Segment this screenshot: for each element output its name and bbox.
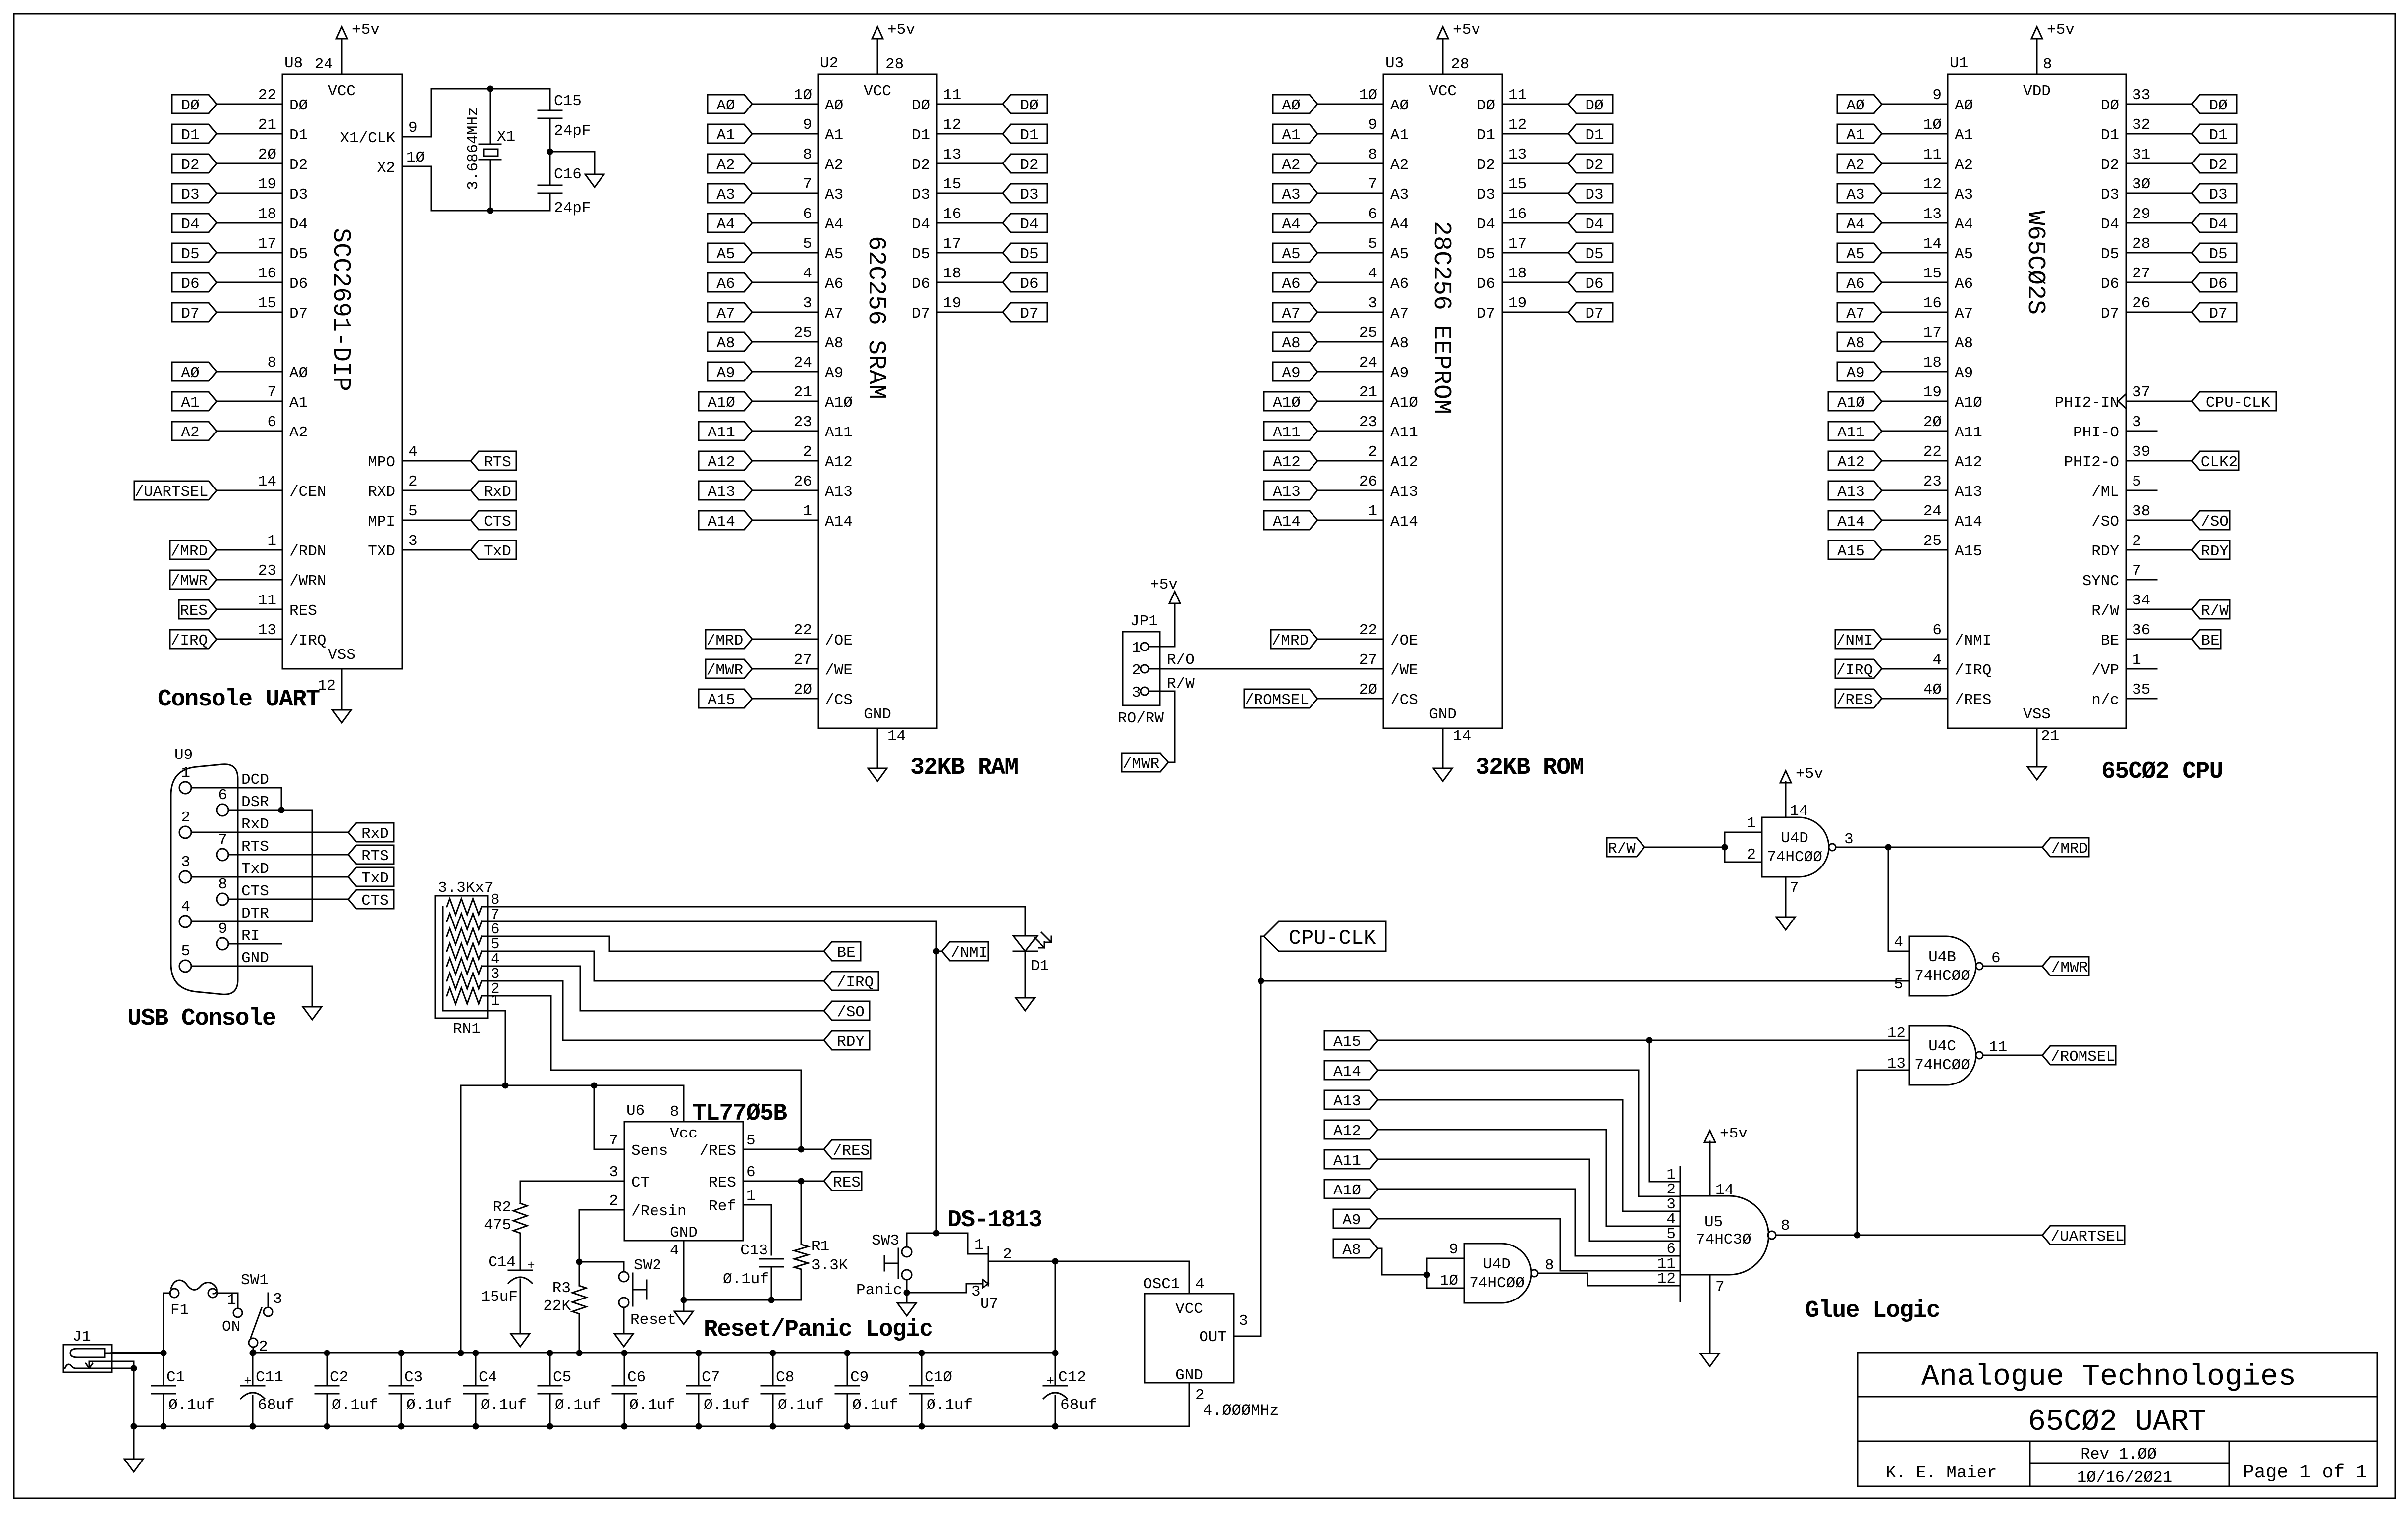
svg-text:DØ: DØ (181, 97, 199, 114)
U9 pin 8 CTS (217, 893, 228, 905)
svg-text:12: 12 (318, 677, 336, 695)
svg-text:/IRQ: /IRQ (171, 632, 208, 650)
svg-text:+: + (527, 1258, 535, 1273)
svg-text:C16: C16 (554, 166, 582, 183)
svg-text:/MWR: /MWR (2051, 959, 2088, 976)
IC U8 SCC2691-DIP body (282, 74, 402, 669)
svg-text:J1: J1 (72, 1328, 91, 1346)
svg-text:21: 21 (258, 116, 276, 134)
node C3 bottom rail (398, 1423, 405, 1430)
svg-text:CTS: CTS (241, 883, 269, 900)
svg-text:Ø.1uf: Ø.1uf (778, 1397, 824, 1414)
svg-text:5: 5 (803, 235, 812, 253)
svg-text:D1: D1 (2209, 127, 2227, 144)
svg-text:A12: A12 (1333, 1123, 1361, 1140)
svg-text:A1: A1 (825, 127, 843, 144)
svg-text:22: 22 (1923, 443, 1942, 461)
flag A13 glue (1324, 1090, 1378, 1109)
svg-text:/ROMSEL: /ROMSEL (1245, 692, 1309, 709)
svg-text:A4: A4 (825, 216, 843, 233)
svg-text:A12: A12 (825, 454, 853, 471)
svg-text:68uf: 68uf (258, 1397, 294, 1414)
svg-text:TxD: TxD (484, 543, 511, 560)
flag CPU-CLK mid (1264, 921, 1386, 951)
wire RN1 pin7 to /NMI net (488, 921, 936, 1233)
svg-text:D4: D4 (181, 216, 199, 233)
svg-text:36: 36 (2132, 622, 2150, 639)
wire R1 to GND net (801, 1269, 802, 1300)
svg-text:/IRQ: /IRQ (1955, 662, 1991, 679)
gate U4D 74HC00 top (1762, 817, 1829, 877)
svg-text:24: 24 (315, 56, 333, 73)
svg-text:/ML: /ML (2091, 484, 2119, 501)
svg-text:A7: A7 (1846, 305, 1864, 323)
svg-text:VSS: VSS (328, 647, 356, 664)
svg-text:R/W: R/W (2091, 602, 2119, 620)
fuse F1 (164, 1293, 170, 1353)
ground at SW2 (614, 1334, 633, 1347)
svg-text:C1: C1 (166, 1369, 185, 1386)
svg-text:A13: A13 (1837, 484, 1865, 501)
svg-text:Ø.1uf: Ø.1uf (332, 1397, 378, 1414)
svg-text:3: 3 (803, 295, 812, 312)
svg-text:D3: D3 (2101, 186, 2119, 204)
svg-text:2Ø: 2Ø (794, 681, 812, 699)
resistor R3 22K (579, 1262, 580, 1286)
resistor network RN1 body 3.3Kx7 (435, 896, 488, 1018)
wire CPU-CLK to U4B pin5 (1261, 980, 1909, 982)
svg-text:D3: D3 (181, 186, 199, 204)
svg-text:1Ø: 1Ø (406, 149, 425, 166)
node DSR/DCD junction (278, 807, 285, 813)
capacitor C4 0.1uf (475, 1353, 477, 1386)
wire U2 GND to ground (877, 728, 878, 768)
svg-text:U2: U2 (820, 55, 838, 72)
svg-text:U4D: U4D (1781, 830, 1808, 847)
svg-text:A2: A2 (716, 157, 735, 174)
connector U9 DB9 shell (171, 764, 238, 995)
svg-text:D7: D7 (1020, 305, 1038, 323)
node RES junction R1 tap (798, 1178, 805, 1185)
svg-text:A13: A13 (1333, 1093, 1361, 1110)
svg-text:12: 12 (1657, 1270, 1676, 1288)
svg-text:/CS: /CS (1390, 692, 1418, 709)
ground at SW3 (897, 1303, 916, 1316)
svg-text:3.6864MHz: 3.6864MHz (465, 107, 482, 190)
svg-text:24pF: 24pF (554, 200, 591, 217)
node C11 top rail (250, 1350, 256, 1356)
flag RDY glue (824, 1031, 870, 1050)
svg-text:1: 1 (2132, 651, 2141, 669)
svg-text:RDY: RDY (2201, 543, 2229, 560)
wire A12 to U5 pin4 (1378, 1130, 1680, 1226)
svg-text:U4C: U4C (1928, 1038, 1956, 1055)
svg-text:D5: D5 (912, 246, 930, 263)
svg-text:21: 21 (1359, 384, 1377, 401)
U9 pin 1 DCD (179, 782, 191, 794)
wire A11 to U5 pin5 (1378, 1159, 1680, 1241)
svg-text:RDY: RDY (2091, 543, 2119, 560)
svg-text:6: 6 (1368, 206, 1377, 223)
svg-text:8: 8 (670, 1103, 679, 1121)
svg-text:13: 13 (1923, 206, 1942, 223)
svg-text:A7: A7 (825, 305, 843, 323)
svg-text:AØ: AØ (1846, 97, 1864, 114)
svg-text:14: 14 (1923, 235, 1942, 253)
svg-text:DØ: DØ (2101, 97, 2119, 114)
svg-text:74HCØØ: 74HCØØ (1469, 1275, 1525, 1292)
svg-text:2Ø: 2Ø (1359, 681, 1377, 699)
svg-text:13: 13 (943, 146, 961, 163)
node crystal bottom junction (487, 208, 493, 214)
svg-text:C15: C15 (554, 93, 582, 110)
svg-text:A14: A14 (1955, 513, 1982, 531)
svg-text:Page 1 of 1: Page 1 of 1 (2243, 1462, 2367, 1483)
wire /Resin to SW2 (579, 1262, 624, 1272)
svg-text:A12: A12 (1837, 454, 1865, 471)
title block row divider 2 (1858, 1441, 2377, 1442)
svg-text:22: 22 (258, 87, 276, 104)
svg-text:8: 8 (2043, 56, 2052, 73)
node C6 bottom rail (621, 1423, 628, 1430)
svg-text:GND: GND (670, 1224, 698, 1242)
svg-text:7: 7 (267, 384, 276, 401)
svg-text:62C256 SRAM: 62C256 SRAM (862, 236, 890, 399)
node C4 top rail (473, 1350, 479, 1356)
power +5v at JP1 (1169, 592, 1180, 603)
svg-text:RTS: RTS (484, 454, 511, 471)
svg-text:3.3K: 3.3K (811, 1257, 848, 1274)
svg-text:A14: A14 (708, 513, 735, 531)
svg-text:BE: BE (837, 944, 855, 962)
svg-text:C1Ø: C1Ø (925, 1369, 952, 1386)
svg-text:D5: D5 (2209, 246, 2227, 263)
svg-text:4: 4 (1195, 1276, 1204, 1293)
node U6 GND corner (681, 1297, 687, 1303)
wire R2 to C14 (520, 1233, 521, 1270)
svg-text:RDY: RDY (837, 1033, 865, 1051)
svg-text:475: 475 (484, 1217, 511, 1234)
wire U6 GND net (684, 1241, 801, 1300)
svg-text:17: 17 (1508, 235, 1527, 253)
node CPU-CLK to U4B pin5 junction (1258, 978, 1264, 984)
svg-text:A12: A12 (1390, 454, 1418, 471)
svg-text:32: 32 (2132, 116, 2150, 134)
svg-text:3Ø: 3Ø (2132, 176, 2150, 193)
svg-text:15: 15 (1923, 265, 1942, 282)
svg-text:23: 23 (258, 562, 276, 580)
wire Sens riser (594, 1085, 624, 1149)
svg-text:A12: A12 (1273, 454, 1301, 471)
IC OSC1 body (1145, 1294, 1234, 1383)
wire J1 sleeve to ground (89, 1361, 134, 1459)
svg-text:D1: D1 (289, 127, 308, 144)
svg-text:D2: D2 (912, 157, 930, 174)
svg-text:VCC: VCC (864, 83, 891, 100)
svg-text:/RES: /RES (1955, 692, 1991, 709)
capacitor C13 0.1uf (760, 1258, 783, 1260)
svg-text:D6: D6 (181, 275, 199, 293)
svg-text:OUT: OUT (1199, 1329, 1227, 1346)
svg-text:15: 15 (258, 295, 276, 312)
flag /NMI (942, 942, 988, 961)
svg-text:A3: A3 (1282, 186, 1300, 204)
capacitor C8 0.1uf (772, 1353, 774, 1386)
flag BE (824, 942, 861, 961)
svg-text:A15: A15 (1333, 1033, 1361, 1051)
wire U4D out to U4B pin4 (1888, 847, 1909, 951)
wire ground rail (134, 1426, 1189, 1427)
node /MRD to U4B junction (1885, 844, 1892, 851)
svg-text:6: 6 (267, 414, 276, 431)
svg-text:25: 25 (794, 325, 812, 342)
svg-text:A14: A14 (825, 513, 853, 531)
U9 pin 2 RxD (179, 826, 191, 838)
svg-text:18: 18 (1508, 265, 1527, 282)
flag RES (824, 1172, 862, 1191)
svg-text:+5v: +5v (2047, 21, 2075, 39)
ground at U2 GND (868, 768, 887, 781)
crystal X1 (490, 89, 491, 144)
flag A8 glue (1333, 1239, 1378, 1258)
svg-text:A1: A1 (1955, 127, 1973, 144)
svg-text:D3: D3 (1585, 186, 1603, 204)
svg-text:15: 15 (1508, 176, 1527, 193)
wire net to SW3 and U7 pin1 (907, 1233, 988, 1254)
svg-text:A15: A15 (708, 692, 735, 709)
svg-text:3: 3 (971, 1283, 981, 1300)
svg-text:4: 4 (1932, 651, 1942, 669)
svg-text:BE: BE (2101, 632, 2119, 650)
svg-text:3: 3 (1844, 831, 1854, 848)
svg-text:VCC: VCC (1175, 1300, 1203, 1318)
svg-text:D7: D7 (2209, 305, 2227, 323)
svg-text:4: 4 (181, 898, 190, 916)
svg-text:27: 27 (2132, 265, 2150, 282)
svg-text:Rev 1.ØØ: Rev 1.ØØ (2080, 1445, 2157, 1463)
svg-text:14: 14 (1453, 728, 1471, 745)
node RN1 pin1 junction (502, 1083, 509, 1089)
svg-text:Reset/Panic Logic: Reset/Panic Logic (704, 1316, 932, 1343)
svg-text:1: 1 (1747, 815, 1756, 832)
node /Resin junction (576, 1259, 583, 1265)
svg-text:35: 35 (2132, 681, 2150, 699)
svg-text:SCC2691-DIP: SCC2691-DIP (327, 228, 355, 391)
svg-text:19: 19 (258, 176, 276, 193)
IC U7 DS-1813 symbol (988, 1247, 989, 1286)
svg-text:4: 4 (670, 1242, 679, 1259)
svg-text:34: 34 (2132, 592, 2150, 609)
svg-text:3: 3 (408, 533, 418, 550)
svg-text:Panic: Panic (856, 1282, 902, 1299)
svg-text:U4B: U4B (1928, 949, 1956, 966)
svg-text:/WRN: /WRN (289, 573, 326, 590)
connector JP1 body (1123, 632, 1160, 705)
svg-text:8: 8 (803, 146, 812, 163)
svg-text:A1Ø: A1Ø (825, 394, 853, 412)
svg-text:A7: A7 (1282, 305, 1300, 323)
ground at J1 (124, 1459, 143, 1472)
svg-text:65CØ2 CPU: 65CØ2 CPU (2101, 758, 2223, 785)
svg-text:39: 39 (2132, 443, 2150, 461)
svg-text:9: 9 (218, 920, 227, 938)
svg-text:D1: D1 (912, 127, 930, 144)
svg-text:R/W: R/W (2201, 602, 2229, 620)
ground at C14 (511, 1334, 530, 1347)
svg-text:5: 5 (2132, 473, 2141, 490)
svg-text:11: 11 (1508, 87, 1527, 104)
node C4 bottom rail (473, 1423, 479, 1430)
svg-text:A6: A6 (716, 275, 735, 293)
svg-text:C9: C9 (850, 1369, 869, 1386)
svg-text:A5: A5 (825, 246, 843, 263)
svg-text:15: 15 (943, 176, 961, 193)
node C1 bottom rail (161, 1423, 167, 1430)
svg-text:C12: C12 (1058, 1369, 1086, 1386)
flag R/W into U4D (1607, 838, 1644, 857)
svg-text:11: 11 (1989, 1039, 2007, 1056)
svg-text:1: 1 (181, 764, 190, 782)
RN1 common bus (443, 907, 505, 1011)
svg-text:U6: U6 (626, 1102, 645, 1120)
svg-text:/NMI: /NMI (1836, 632, 1873, 650)
svg-text:1: 1 (491, 992, 500, 1010)
node C5 bottom rail (547, 1423, 553, 1430)
svg-text:A6: A6 (1955, 275, 1973, 293)
svg-text:6: 6 (746, 1164, 756, 1181)
svg-text:A12: A12 (1955, 454, 1982, 471)
switch SW3 Panic (902, 1247, 912, 1257)
svg-text:D2: D2 (1020, 157, 1038, 174)
svg-text:5: 5 (1894, 976, 1903, 993)
svg-text:Ø.1uf: Ø.1uf (852, 1397, 898, 1414)
svg-text:/UARTSEL: /UARTSEL (2051, 1228, 2125, 1245)
svg-text:23: 23 (1359, 414, 1377, 431)
svg-text:A1: A1 (1390, 127, 1409, 144)
svg-text:3.3Kx7: 3.3Kx7 (438, 879, 493, 897)
svg-text:1Ø: 1Ø (1923, 116, 1942, 134)
svg-text:+5v: +5v (887, 21, 915, 39)
flag /ROMSEL glue (2042, 1046, 2116, 1065)
svg-text:6: 6 (1932, 622, 1942, 639)
svg-text:D4: D4 (912, 216, 930, 233)
svg-text:JP1: JP1 (1130, 613, 1158, 630)
svg-text:17: 17 (943, 235, 961, 253)
svg-text:Glue Logic: Glue Logic (1805, 1298, 1940, 1324)
svg-text:4: 4 (1368, 265, 1377, 282)
svg-text:D6: D6 (289, 275, 308, 293)
svg-text:16: 16 (1508, 206, 1527, 223)
svg-text:D1: D1 (1585, 127, 1603, 144)
U4D pin 7 ground (1785, 877, 1787, 917)
svg-text:26: 26 (794, 473, 812, 490)
svg-text:A13: A13 (1390, 484, 1418, 501)
svg-text:A9: A9 (1955, 365, 1973, 382)
wire RN1 pin5 to flag /IRQ (488, 951, 824, 981)
svg-text:C13: C13 (740, 1242, 768, 1259)
svg-text:/CEN: /CEN (289, 484, 326, 501)
wire SW3 bottom to U7 pin3 and ground (907, 1280, 983, 1293)
svg-text:Ø.1uf: Ø.1uf (723, 1271, 769, 1288)
svg-text:D2: D2 (1477, 157, 1495, 174)
svg-text:MPI: MPI (368, 513, 395, 531)
svg-text:TxD: TxD (361, 870, 389, 887)
svg-text:D6: D6 (912, 275, 930, 293)
svg-text:25: 25 (1923, 533, 1942, 550)
svg-text:A5: A5 (1846, 246, 1864, 263)
svg-text:9: 9 (1449, 1241, 1458, 1258)
svg-text:D5: D5 (1585, 246, 1603, 263)
ground at U1 VSS (2027, 767, 2046, 780)
svg-text:9: 9 (1368, 116, 1377, 134)
svg-text:A8: A8 (1282, 335, 1300, 352)
svg-text:21: 21 (2041, 728, 2059, 745)
svg-text:D6: D6 (2101, 275, 2119, 293)
node SW1 rail junction (250, 1350, 257, 1356)
svg-text:24pF: 24pF (554, 122, 591, 140)
svg-text:AØ: AØ (1390, 97, 1409, 114)
node SW3/U7 net junction (933, 1230, 940, 1237)
node U4C pin13 junction (1854, 1232, 1861, 1239)
svg-text:/IRQ: /IRQ (837, 974, 874, 991)
node C2 top rail (324, 1350, 330, 1356)
svg-text:AØ: AØ (1282, 97, 1300, 114)
svg-text:A8: A8 (1955, 335, 1973, 352)
svg-text:D1: D1 (1020, 127, 1038, 144)
gate U4C 74HC00 (1909, 1026, 1976, 1085)
svg-text:A3: A3 (1955, 186, 1973, 204)
svg-text:RXD: RXD (368, 484, 395, 501)
flag CTS at U9 (348, 890, 394, 909)
svg-text:16: 16 (258, 265, 276, 282)
svg-text:DØ: DØ (912, 97, 930, 114)
svg-text:C7: C7 (702, 1369, 720, 1386)
IC U6 TL7705B body (624, 1122, 743, 1241)
svg-text:A8: A8 (1342, 1242, 1361, 1259)
svg-text:C5: C5 (553, 1369, 571, 1386)
svg-text:A2: A2 (825, 157, 843, 174)
svg-text:26: 26 (1359, 473, 1377, 490)
svg-text:28: 28 (1451, 56, 1469, 73)
svg-text:4Ø: 4Ø (1923, 681, 1942, 699)
svg-text:68uf: 68uf (1060, 1397, 1097, 1414)
svg-text:D5: D5 (2101, 246, 2119, 263)
svg-text:31: 31 (2132, 146, 2150, 163)
svg-text:/OE: /OE (1390, 632, 1418, 650)
title block row divider 1 (1858, 1396, 2377, 1398)
resistor R1 3.3K (801, 1181, 802, 1245)
svg-text:/MWR: /MWR (707, 662, 743, 679)
svg-text:/NMI: /NMI (951, 944, 987, 962)
svg-text:14: 14 (1715, 1182, 1734, 1199)
svg-text:24: 24 (794, 354, 812, 372)
svg-text:3: 3 (609, 1164, 618, 1181)
svg-text:/RDN: /RDN (289, 543, 326, 560)
svg-text:1: 1 (746, 1188, 756, 1205)
svg-text:5: 5 (1368, 235, 1377, 253)
U5 pin 14 +5v (1709, 1141, 1711, 1196)
svg-text:A11: A11 (1333, 1152, 1361, 1170)
svg-text:17: 17 (258, 235, 276, 253)
svg-text:A11: A11 (1837, 424, 1865, 441)
svg-text:14: 14 (887, 728, 906, 745)
node C11 bottom rail (250, 1423, 256, 1430)
svg-text:A4: A4 (1846, 216, 1864, 233)
power +5v at U2 VCC (872, 27, 883, 39)
svg-text:AØ: AØ (289, 365, 308, 382)
flag TxD at U9 (348, 867, 394, 886)
gate U5 74HC30 (1680, 1167, 1681, 1301)
